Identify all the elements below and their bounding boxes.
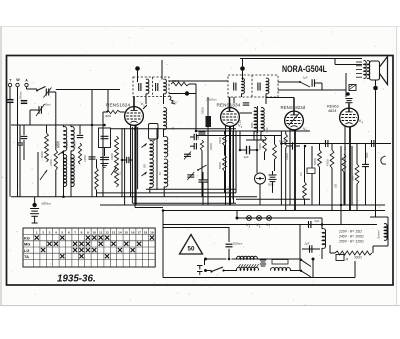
junction dot 13 [91, 124, 94, 127]
wire x103 drop [102, 112, 104, 197]
mains plug [197, 265, 203, 267]
capacitor cluster a [199, 131, 206, 133]
bus y210.5 [163, 210, 385, 212]
resistor right 1 [318, 150, 322, 167]
wire x233 drop [232, 131, 234, 199]
wire dot2 stem [242, 71, 244, 80]
svg-text:5000: 5000 [171, 102, 177, 105]
capacitor mid right [292, 142, 294, 150]
svg-text:KG: KG [24, 235, 30, 240]
svg-text:NORA-G504L: NORA-G504L [282, 64, 327, 74]
wire cluster down [201, 151, 203, 197]
wire coil1 top [63, 125, 65, 127]
capacitor W branch [21, 100, 28, 102]
wire dot2 up [242, 59, 244, 67]
junction dot 3 [239, 149, 242, 152]
terminal W [16, 83, 19, 86]
oscillator coil b upper [164, 137, 168, 157]
bus y189 [146, 188, 236, 190]
capacitor IFT2 top [243, 102, 250, 104]
wire y90 long [278, 89, 346, 91]
resistor band2 [54, 150, 57, 170]
tube V4 leg a [344, 126, 346, 205]
choke core [386, 225, 388, 239]
wire x312 seg2 [311, 174, 313, 206]
power top bus [205, 258, 227, 260]
wire x300 drop [299, 225, 301, 260]
page top edge [0, 26, 400, 28]
wire coil2 down [70, 151, 72, 197]
svg-text:5000cm: 5000cm [233, 242, 242, 246]
wire IFT left down [253, 131, 255, 140]
mains switch right [301, 260, 311, 267]
svg-text:40000: 40000 [327, 159, 330, 166]
wire y249 seg [302, 248, 320, 250]
wire mid r top [224, 131, 226, 134]
wire cap extra down [91, 159, 93, 197]
wire y82 right section [278, 81, 300, 83]
tube V1 top cap lead [133, 97, 135, 111]
svg-text:4824: 4824 [328, 109, 336, 113]
wire cap right [315, 82, 323, 84]
svg-text:7: 7 [74, 230, 76, 234]
wire box1 bottom a [145, 94, 147, 105]
wire x135 ext [134, 189, 136, 207]
tube V3 top lead [293, 98, 295, 116]
wire mid r4 bottom [274, 160, 276, 172]
svg-text:8: 8 [81, 230, 83, 234]
wire speaker dot down [375, 90, 377, 217]
tube V3 [285, 111, 304, 130]
svg-text:RENS1834: RENS1834 [217, 103, 241, 108]
wire x286 drop a [285, 131, 287, 134]
band selection table grid [23, 228, 155, 267]
svg-text:3: 3 [49, 230, 51, 234]
wire x122 long [121, 128, 123, 197]
wave switch arrow a [142, 144, 147, 148]
field coil core [325, 230, 327, 247]
junction dot under block [346, 92, 350, 96]
speaker frame [370, 61, 380, 80]
svg-text:1935-36.: 1935-36. [57, 274, 96, 285]
bus y192.9 [96, 192, 236, 194]
capacitor right small [362, 163, 369, 165]
wire A to switch [27, 88, 38, 90]
wire r4 bottom [304, 199, 306, 205]
wire cap mid down [23, 140, 25, 160]
transformer core hatch [239, 264, 241, 267]
capacitor 5000cm [226, 243, 233, 245]
page left edge [0, 27, 2, 306]
resistor mid 2 [223, 155, 227, 171]
resistor block 100 [349, 85, 356, 91]
tube V4 top lead [348, 104, 350, 113]
wire V2 plate to IFT [240, 112, 253, 114]
wire y128.8 bus [110, 128, 236, 130]
wire r3 bottom [356, 184, 358, 211]
wire dot stem up [34, 197, 36, 203]
capacitor 5uF [308, 221, 310, 228]
R plug box [336, 255, 344, 261]
svg-text:LG: LG [24, 248, 29, 253]
wire T cap down [9, 102, 11, 197]
svg-text:17: 17 [137, 230, 141, 234]
wire x132 ext [131, 193, 133, 203]
wire cap extra stem [91, 125, 93, 157]
svg-text:220V - R= 15Ω: 220V - R= 15Ω [338, 230, 362, 234]
wire can down [153, 139, 155, 141]
svg-text:10: 10 [93, 230, 97, 234]
wire cap1uF right [250, 149, 258, 151]
scan speckle texture [128, 68, 131, 71]
output transformer winding b [367, 61, 370, 79]
dial lamp V6 [257, 216, 262, 221]
wire y140 seg [246, 139, 266, 141]
wire x124.6 long [124, 128, 126, 205]
wire x286 drop b [285, 148, 287, 211]
heater bus [237, 217, 322, 219]
heater bus dot [236, 217, 239, 220]
wire coils bottom b [163, 187, 165, 197]
wire y64.5 [335, 64, 362, 66]
speaker ground dot [373, 86, 378, 91]
junction dot 11 [103, 124, 106, 127]
wire stack5000 down [272, 182, 274, 193]
wire W down [17, 87, 19, 197]
wire pot stem [37, 152, 39, 197]
wire y97.5 link [266, 97, 294, 99]
wire cap01 right [129, 159, 133, 161]
resistor block V2 [206, 116, 212, 127]
electrolytic 6000cm [30, 208, 39, 210]
resistor right 2 [330, 150, 334, 168]
wire mid r4 top [274, 135, 276, 144]
switch cluster [198, 165, 207, 170]
tube V2 leg b [229, 126, 231, 205]
wire cap right stem [365, 144, 367, 165]
svg-text:18: 18 [144, 230, 148, 234]
padder capacitor b [193, 143, 195, 150]
junction dot 4 [256, 149, 259, 152]
page right edge [396, 27, 398, 306]
transformer primary [237, 256, 258, 259]
resistor right 3 [355, 164, 359, 184]
wire r5 bottom [343, 172, 345, 205]
wire x312 seg [311, 146, 313, 168]
capacitor 5000cm stem down [228, 249, 230, 259]
wire res band2 up [55, 125, 57, 150]
IF2 coil a [242, 78, 245, 94]
wire y93.5 link [169, 93, 196, 95]
wire r1 top [319, 144, 321, 151]
capacitor stack power [260, 259, 267, 261]
wire lamp feed [236, 211, 238, 219]
left power boundary [162, 211, 164, 278]
resistor 20000 [171, 82, 189, 86]
wire block top [207, 97, 209, 116]
terminal A [25, 83, 28, 86]
wire x341 drop [340, 146, 342, 225]
wire padder join2 [190, 145, 194, 147]
wire cap mid stem [23, 125, 25, 135]
resistor right 5 [342, 154, 346, 172]
svg-text:50000: 50000 [314, 158, 317, 165]
choke coil [384, 224, 387, 241]
svg-text:70000: 70000 [219, 137, 222, 144]
wire coil2 top [70, 125, 72, 127]
wire 40cm stem [29, 110, 31, 125]
bus y199 [236, 198, 310, 200]
capacitor on bus b [371, 140, 373, 147]
svg-text:2: 2 [42, 230, 44, 234]
choke loop top [370, 216, 388, 218]
field coil [322, 229, 326, 249]
IFT2 coil left [254, 108, 257, 132]
IFT2 coil right [261, 108, 264, 132]
wire y131 bus [196, 130, 310, 132]
terminal T [8, 83, 11, 86]
wire A lead [26, 87, 28, 89]
coil antenna primary [64, 127, 67, 151]
IF1 capacitor b [155, 83, 157, 91]
resistor 300 ohm [335, 251, 372, 255]
wire grid column [55, 92, 57, 125]
ground dot left [32, 203, 36, 207]
dial lamp V5 [247, 216, 252, 221]
wire rf coil down [163, 129, 165, 137]
capacitor 5000cm stem up [228, 227, 230, 242]
svg-text:250V - R= 120Ω: 250V - R= 120Ω [338, 240, 364, 244]
wire stack5000 stem [272, 171, 274, 175]
power dot a [204, 258, 207, 261]
svg-text:5000: 5000 [268, 184, 274, 187]
wire x137.6 long [137, 127, 139, 189]
choke loop bottom [373, 245, 388, 247]
ground hatch below can [101, 163, 109, 165]
wire into box1 [161, 60, 163, 80]
svg-text:20000: 20000 [66, 141, 69, 148]
wire cap80 stem [79, 125, 81, 134]
wire x196 drop [195, 84, 197, 131]
svg-text:2000: 2000 [228, 186, 231, 192]
svg-text:4MΩ: 4MΩ [105, 114, 111, 118]
svg-text:1μF: 1μF [244, 155, 249, 159]
tube V3 leg b [294, 130, 296, 211]
resistor mid 1 [223, 134, 227, 146]
IF1 coil a [146, 79, 149, 94]
top-cap junction dot V1 [135, 66, 140, 71]
wire y224.5 [163, 224, 377, 226]
bus y205 [100, 204, 385, 206]
capacitor stack V4 grid [346, 98, 353, 100]
power bottom lead [205, 270, 212, 272]
power dot c [312, 258, 315, 261]
coil band2 b [71, 155, 74, 187]
wire capmid left [288, 145, 293, 147]
junction dot 0 [121, 159, 124, 162]
wire bus y125 [11, 124, 105, 126]
tube V2 top lead [229, 97, 231, 112]
oscillator coil a lower [150, 159, 153, 187]
oscillator coil b lower [164, 159, 167, 187]
svg-text:RENS1824: RENS1824 [106, 103, 130, 108]
capacitor on bus a [325, 140, 327, 147]
wire r3 top [356, 144, 358, 165]
wire speaker to dot [375, 80, 377, 86]
wire top row right [56, 89, 120, 91]
svg-text:R: R [346, 258, 349, 262]
wire cap extra2 up [19, 125, 21, 143]
svg-text:Drossel: Drossel [378, 230, 381, 239]
pot arrow left [40, 170, 47, 180]
wire box2 out b [265, 94, 267, 105]
svg-text:20000: 20000 [50, 159, 53, 166]
wave switch arrow b [142, 172, 147, 176]
svg-text:5: 5 [61, 230, 63, 234]
svg-text:10000: 10000 [84, 155, 87, 162]
transformer secondary [237, 267, 259, 270]
resistor V3 leg [284, 134, 287, 148]
capacitor 1uF big [246, 146, 248, 155]
wire mid r join [224, 146, 226, 156]
capacitor 40cm [38, 106, 40, 114]
wire switch to coil [224, 270, 238, 272]
wire 4M right [120, 111, 125, 113]
wire y135 bus [196, 135, 281, 137]
svg-text:15: 15 [125, 230, 129, 234]
svg-text:1000: 1000 [266, 127, 269, 133]
wire y81 link [169, 80, 228, 82]
coil core line [156, 128, 158, 190]
wire 4M left [103, 111, 106, 113]
resistor diagonal 5000 [169, 96, 175, 105]
wire coils bottom a [149, 187, 151, 193]
pot tap arrow [111, 167, 117, 175]
tube V1 leg b [134, 125, 136, 205]
tube V3 leg a [289, 129, 291, 205]
ground tick [32, 222, 38, 224]
svg-text:30000: 30000 [41, 150, 44, 158]
power dot b [204, 269, 207, 272]
wire block V4 link [345, 73, 347, 97]
svg-text:50000: 50000 [219, 162, 222, 169]
tube V4 leg b [349, 127, 351, 211]
capacitor in can [101, 135, 109, 137]
svg-text:5000: 5000 [366, 152, 369, 158]
top-cap junction dot V2 [240, 66, 245, 71]
svg-text:30000: 30000 [210, 143, 213, 150]
wire grid drop [91, 90, 93, 197]
junction dot mid [185, 91, 189, 95]
capacitor coupling 1uF [311, 79, 313, 87]
IFT2 core line [257, 106, 259, 133]
switch antenna [37, 87, 46, 91]
wire r2 bottom [331, 168, 333, 211]
RF coil after V1 [164, 108, 167, 130]
capacitor below can [100, 156, 109, 158]
svg-text:19: 19 [150, 230, 154, 234]
svg-text:6000cm: 6000cm [42, 202, 52, 206]
svg-text:40000: 40000 [259, 143, 262, 150]
svg-text:500: 500 [144, 163, 147, 168]
wire box1 bottom b [163, 94, 165, 105]
IF2 coil b [266, 78, 269, 94]
resistor 4M grid [106, 110, 120, 113]
trimmer mid arrow [184, 152, 191, 160]
wire x135 long [134, 128, 136, 190]
resistor mid 4 [273, 144, 277, 160]
trimmer mid arrow b [187, 172, 194, 180]
oscillator coil a upper [150, 141, 154, 159]
junction dot 2 [195, 130, 198, 133]
wire 300 left [330, 252, 335, 254]
wire x240 drop [239, 131, 241, 150]
svg-text:10000: 10000 [111, 153, 114, 160]
output transformer winding a [364, 61, 367, 79]
wire stack to tube [348, 103, 350, 104]
wire x355 up [354, 261, 356, 278]
dial lamp V7 [267, 216, 272, 221]
svg-text:40cm: 40cm [45, 103, 51, 107]
wire x108 to res [103, 111, 108, 113]
IF2 capacitor b [257, 83, 259, 91]
svg-text:RE963: RE963 [327, 105, 339, 109]
svg-text:30000: 30000 [202, 107, 205, 114]
coil antenna secondary [71, 127, 74, 151]
svg-text:TA: TA [24, 254, 29, 259]
choke loop right [387, 217, 389, 246]
svg-text:1: 1 [36, 230, 38, 234]
winding right box [272, 260, 288, 265]
tube V1 leg a [130, 125, 132, 197]
chassis bus left [11, 196, 257, 198]
svg-text:W: W [16, 78, 20, 82]
component box right [307, 168, 315, 174]
junction dot 10 [321, 223, 324, 226]
IF1 coil b [164, 79, 167, 94]
IF2 capacitor a [233, 83, 235, 91]
tube V2 leg c [233, 126, 235, 203]
capacitor 80 left [77, 134, 84, 136]
power right vertical [299, 259, 301, 271]
svg-text:1μF: 1μF [303, 76, 308, 80]
wire x322 down [321, 218, 323, 229]
wire box2 out a [241, 94, 243, 98]
trimmer mid b [187, 174, 194, 176]
resistor cluster [200, 140, 203, 150]
svg-text:12: 12 [105, 230, 109, 234]
capacitor left mid [21, 135, 28, 137]
junction dot 8 [162, 209, 165, 212]
power top bus b [232, 258, 301, 260]
wire cap01 left [122, 159, 127, 161]
wire can down [104, 148, 106, 157]
IF1 capacitor a [138, 83, 140, 91]
svg-text:5μF: 5μF [315, 219, 320, 223]
svg-text:50: 50 [188, 246, 195, 253]
svg-text:100: 100 [197, 135, 200, 140]
svg-text:250cm: 250cm [18, 92, 22, 100]
wire coil1 down [63, 151, 65, 197]
wire mid r bottom [224, 171, 226, 193]
IF transformer 2 dashed box [228, 75, 278, 97]
wire x108 bend [107, 90, 109, 113]
junction dot 7 [340, 204, 343, 207]
jack circle [255, 173, 266, 184]
svg-text:RENS1823d: RENS1823d [281, 105, 306, 110]
wire trimmer right [49, 91, 56, 93]
switch AF [300, 82, 310, 87]
